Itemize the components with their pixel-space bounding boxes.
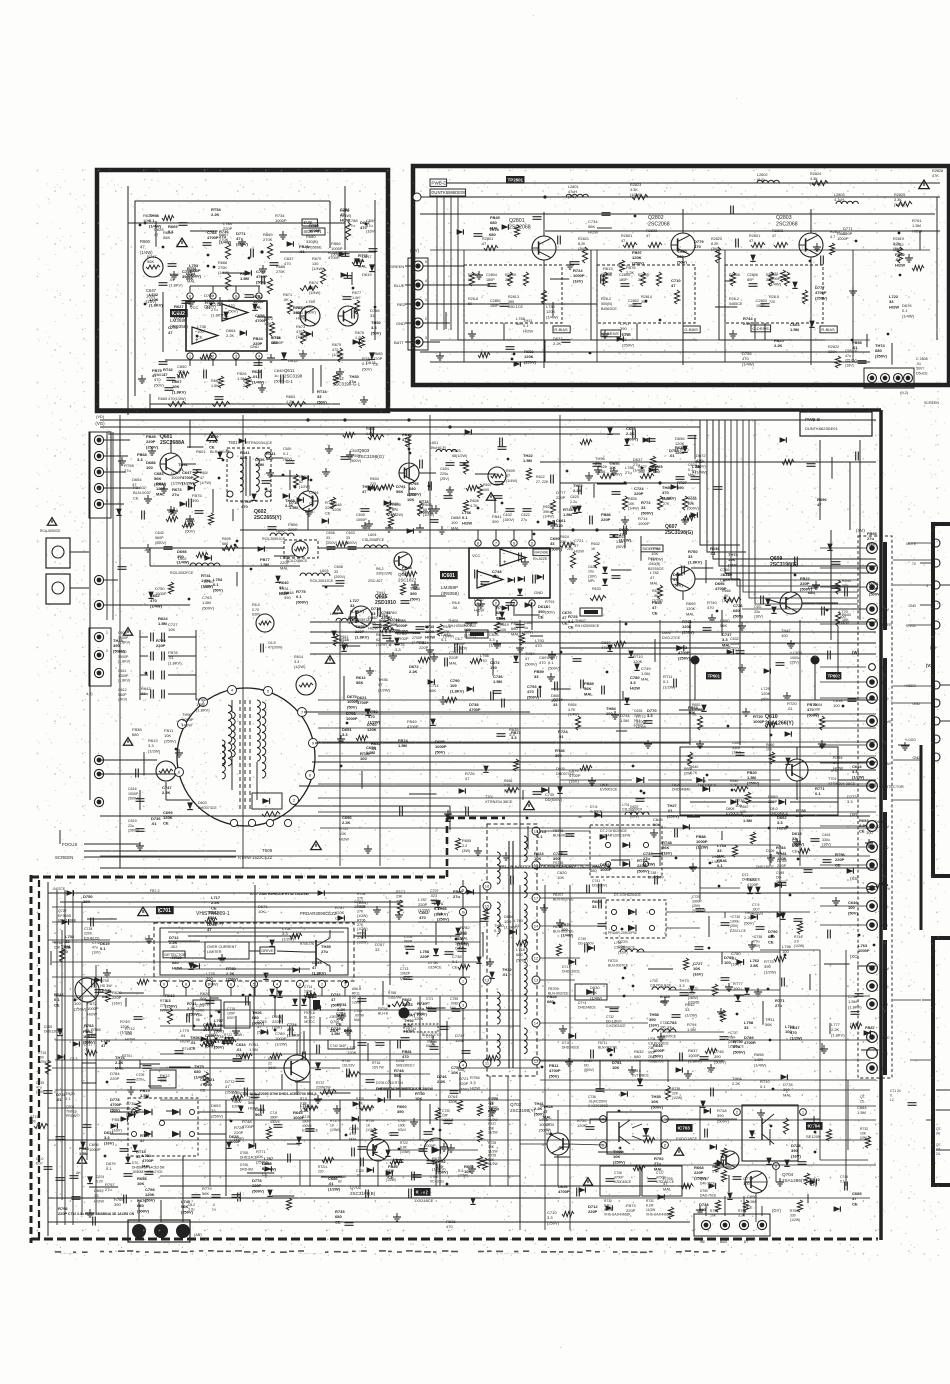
diode D603 — [187, 802, 193, 809]
connector V col pin4 — [932, 601, 940, 609]
diode D619 — [369, 264, 375, 271]
connector XV pin -22V — [867, 920, 878, 931]
transistor Q604 — [394, 552, 412, 570]
wire collector Q2803 — [810, 209, 812, 233]
pin IC701-6 — [227, 980, 234, 987]
wire right nest3 — [731, 420, 858, 580]
rect rect box2 — [606, 900, 666, 938]
wire stage drops — [544, 340, 546, 362]
transistor Q701b — [367, 1139, 389, 1161]
ic IC704 box — [742, 1105, 798, 1161]
resistor R667 — [225, 243, 230, 259]
wire strip bar3 — [883, 812, 887, 930]
pin 1 — [187, 353, 193, 359]
resistor R662 — [245, 376, 250, 388]
wire xray — [599, 1060, 601, 1086]
capacitor C744 — [844, 1182, 846, 1191]
capacitor C632a — [506, 508, 515, 510]
ground c604 — [449, 486, 451, 490]
capacitor C734 — [590, 1050, 592, 1059]
transformer T701 pin r2 — [532, 861, 540, 869]
ground KY — [439, 352, 441, 356]
label cluster C715 — [224, 1002, 250, 1028]
flyback pin3 — [199, 698, 208, 707]
warning triangle t608 — [311, 841, 321, 850]
pin ic601 b2 — [493, 600, 499, 606]
wire bridge — [110, 1111, 128, 1113]
label PWB-D — [430, 179, 447, 186]
connector t701 chain pins — [459, 886, 466, 893]
lamp degauss — [75, 978, 99, 1002]
pin ic703 2 — [600, 1142, 607, 1149]
resistor R712 — [222, 1039, 236, 1044]
warning triangle rca — [47, 518, 56, 526]
flyback pin4 — [228, 686, 237, 695]
parts filler l605 band — [444, 658, 446, 667]
wire q609 c — [790, 565, 792, 592]
coil L601 — [436, 449, 441, 452]
connector V2 pin1 — [932, 681, 940, 689]
resistor stage-d Q2802 — [674, 290, 679, 304]
resistor R608 — [463, 500, 468, 512]
capacitor C624 — [691, 476, 700, 478]
flyback pin1 — [178, 720, 187, 729]
connector XV pin +-22V — [867, 883, 878, 894]
flyback secondary winding — [257, 700, 260, 707]
resistor R2802 — [648, 242, 662, 247]
wire d808 row — [560, 779, 632, 781]
parts filler secondary — [757, 988, 759, 992]
wire tr v bundle — [463, 250, 465, 362]
resistor R732 — [865, 1136, 870, 1148]
connector GY box — [694, 1214, 770, 1236]
pin IC701-8 — [182, 980, 189, 987]
wire tr h mid — [420, 213, 935, 215]
wire right nest2 — [849, 462, 851, 530]
warning triangle AK — [77, 1156, 86, 1164]
resistor R739 — [665, 1086, 670, 1100]
label G-DRIVE 1 — [601, 330, 621, 337]
connector XV pin +15V — [867, 821, 878, 832]
thermistor TH607 — [580, 608, 602, 616]
op-amp IC602 body — [186, 301, 267, 351]
connector V2 pin5 — [932, 753, 940, 761]
warning triangle c726 — [583, 1178, 592, 1186]
PWB border top-left block — [97, 170, 388, 411]
capacitor C611 — [150, 671, 152, 680]
diode D618 — [369, 352, 375, 359]
ground tp — [647, 740, 649, 744]
wire strip feeds — [820, 547, 866, 549]
capacitor C717 — [88, 1034, 97, 1036]
pin IC701-3 — [296, 980, 303, 987]
diode d739 — [736, 959, 743, 965]
coil L606 — [270, 533, 276, 536]
box DRIVE — [260, 947, 275, 954]
connector V2 pin2 — [932, 699, 940, 707]
capacitor C740 — [584, 944, 586, 953]
capacitor C720 — [360, 1158, 362, 1167]
transformer T601 windings — [240, 458, 243, 465]
flyback T608 body — [177, 688, 315, 826]
capacitor C605 — [361, 508, 370, 510]
parts filler bottom left col — [85, 1050, 97, 1055]
wire bl v bundle — [56, 890, 58, 1225]
capacitor stage2 Q2803 — [761, 303, 770, 305]
capacitor C706 — [458, 948, 467, 950]
bridge diode 2 — [172, 1109, 180, 1115]
connector XV pin GND — [867, 901, 878, 912]
resistor R654b — [819, 716, 824, 730]
bridge3 diodes — [611, 909, 616, 914]
bridge diode 3 — [144, 1131, 152, 1137]
resistor R715 — [360, 1105, 374, 1110]
capacitor C705 — [406, 946, 415, 948]
parts filler protect row — [687, 816, 700, 818]
resistor R744 — [797, 922, 802, 934]
label bias Q2802 — [683, 326, 700, 333]
capacitor C725 — [586, 1126, 595, 1128]
capacitor C608 — [150, 633, 152, 642]
capacitor C640m — [516, 624, 525, 626]
rect rect box1 — [590, 825, 662, 877]
transformer T701 left winding — [497, 852, 500, 858]
wire emitter Q2801 — [543, 260, 545, 368]
resistor R606 — [417, 502, 422, 516]
wire t601-q602 — [271, 475, 298, 477]
resistor R750 — [797, 1200, 802, 1212]
capacitor C623 — [578, 486, 580, 495]
capacitor C618 — [416, 626, 425, 628]
capacitor C637 — [636, 798, 645, 800]
parts filler center n mid — [431, 505, 433, 509]
PWB border top-right block — [413, 166, 949, 385]
connector KY pin5 — [413, 337, 423, 347]
wire q603 — [408, 437, 410, 463]
resistor R2824 — [812, 180, 828, 185]
flyback diode box — [252, 793, 282, 809]
transistor Q609 — [780, 592, 802, 614]
transistor ic701 internal — [315, 940, 317, 966]
bridge dashed box — [128, 1098, 198, 1156]
op-amp IC602 upper — [222, 304, 248, 321]
wire h rails mid — [240, 529, 560, 531]
wire collector Q2801 — [543, 212, 545, 236]
coil L2802 — [757, 180, 763, 183]
wire right inner thick bar — [920, 745, 923, 930]
connector VG pin7 — [94, 600, 103, 609]
diode D7-5 — [568, 1033, 575, 1039]
parts filler tr boost — [898, 232, 901, 235]
wire center v boost — [339, 620, 341, 866]
connector VG pin5 — [94, 499, 103, 508]
label IC702 — [414, 1188, 431, 1196]
resistor R734 — [715, 1200, 720, 1212]
connector XV pin 1 — [867, 563, 878, 574]
connector XV pin 7V — [867, 860, 878, 871]
ground q612 — [339, 368, 341, 372]
pin 4 — [256, 353, 262, 359]
parts filler ic701 south2 — [440, 1026, 449, 1028]
connector XV pin TIMER — [867, 619, 878, 630]
resistor R631 — [570, 552, 575, 568]
resistor R675 — [337, 348, 342, 362]
transformer T701 pin l4 — [483, 1059, 491, 1067]
label TP2801 — [506, 176, 525, 184]
parts filler bottom mid2 — [378, 1097, 385, 1102]
coil L605 — [336, 618, 342, 621]
parts filler mid-left — [283, 493, 290, 498]
connector AC box — [128, 1220, 190, 1242]
wire q607 run — [695, 578, 740, 580]
connector XV pin +15V — [867, 963, 878, 974]
resistor R666 — [267, 278, 272, 294]
pin IC701-1 — [341, 980, 348, 987]
wire mid rails — [165, 359, 370, 361]
resistor R654a — [575, 716, 580, 730]
parts filler top-right inner — [715, 306, 737, 308]
transformer T701 pin r6 — [532, 976, 540, 984]
label IC703 — [676, 1124, 693, 1132]
connector tr out — [864, 368, 914, 388]
flyback pin6 — [175, 768, 184, 777]
pin IC701-5 — [250, 980, 257, 987]
resistor R2819 — [897, 247, 902, 263]
resistor R714 — [200, 1041, 214, 1046]
resistor stage-a Q2803 — [730, 272, 735, 286]
connector XV pin 50/60 — [867, 1032, 878, 1043]
transistor ic704 internal — [761, 1118, 763, 1140]
resistor R2821 — [582, 247, 587, 263]
transistor Q-chopper — [284, 1055, 310, 1081]
resistor stage-a Q2802 — [602, 272, 607, 286]
resistor R619 — [494, 622, 499, 634]
transformer T701 dashed box — [487, 824, 537, 1076]
resistor R645c — [437, 624, 442, 636]
pin ic703 1 — [600, 1116, 607, 1123]
resistor R627 — [640, 473, 654, 478]
resistor R625 — [550, 500, 555, 514]
parts filler tl boost — [257, 316, 272, 318]
pin ic704 3 — [773, 1163, 780, 1170]
resistor R719 — [371, 1128, 376, 1140]
transistor Q2802 — [671, 233, 695, 257]
capacitor C616 — [136, 798, 145, 800]
resistor stage-d Q2803 — [802, 290, 807, 304]
wire q702 links — [557, 1155, 559, 1186]
resistor R652 — [697, 716, 702, 730]
trimmer L-tune — [284, 540, 318, 558]
flyback bottom pins — [230, 819, 237, 826]
resistor R632 — [594, 552, 599, 568]
transistor Q702 — [547, 1133, 569, 1155]
resistor RTC3 — [397, 900, 402, 914]
connector XV pin ABL — [867, 740, 878, 751]
wire right partial stubs — [922, 999, 933, 1001]
capacitor C641 — [811, 838, 820, 840]
capacitor C707 — [432, 900, 441, 902]
resistor R666h — [725, 597, 741, 602]
ground ic601 pins — [496, 640, 498, 644]
transformer T701 pin r7 — [532, 1019, 540, 1027]
resistor R629 — [657, 496, 662, 510]
connector AC pin2 — [154, 1224, 168, 1238]
capacitor C649 — [258, 370, 260, 379]
PWB partial box far right upper — [933, 524, 950, 876]
resistor r72x zig — [477, 1104, 482, 1116]
wire chopper — [160, 1067, 284, 1069]
dashed stage box Q2801 — [464, 265, 562, 323]
resistor R630 — [682, 496, 687, 510]
ground c605 — [364, 522, 366, 526]
connector V col pin2 — [932, 559, 940, 567]
op-amp IC601 lower — [477, 571, 503, 588]
capacitor stage2 Q2801 — [500, 303, 509, 305]
parts filler ic601 region — [480, 600, 482, 604]
resistor R656h — [505, 787, 519, 792]
resistor R73x — [390, 1159, 402, 1164]
ground grid — [624, 516, 626, 520]
label foc line — [84, 850, 236, 852]
wire bottom h bundle — [55, 995, 870, 997]
pin ic601 b3 — [511, 600, 517, 606]
warning triangle mid1 — [486, 493, 495, 501]
connector KY pin4 — [413, 318, 423, 328]
connector V col pin3 — [932, 581, 940, 589]
wire left spine — [89, 432, 91, 800]
dashed stage box Q2802 — [597, 265, 695, 323]
capacitor C726 box — [600, 1166, 640, 1196]
label PWB-B — [800, 412, 872, 436]
wire br h rows — [540, 1079, 876, 1081]
ground c641 — [796, 838, 798, 842]
wire emitter Q2802 — [682, 257, 684, 365]
resistor R623 — [463, 460, 468, 474]
connector RCA jack 1 — [46, 538, 70, 568]
resistor R672 — [269, 322, 274, 336]
diode D708 — [248, 1143, 255, 1149]
wire q701 links — [389, 1149, 424, 1151]
connector RCA jack 2 — [46, 574, 70, 604]
capacitor C761 — [358, 998, 367, 1000]
resistor R604 — [368, 485, 384, 490]
capacitor C603 — [348, 546, 357, 548]
connector GY pin3 — [739, 1220, 748, 1229]
pin ic704 1 — [734, 1109, 741, 1116]
resistor R663 — [288, 401, 306, 406]
warning triangle — [177, 238, 187, 247]
wire ic pins — [190, 285, 260, 287]
wire sec rails2 — [636, 951, 780, 953]
parts filler center w boost — [310, 479, 313, 482]
wire gy feeds — [705, 1206, 707, 1216]
capacitor C736 — [596, 1088, 605, 1090]
resistor stage-a Q2801 — [469, 272, 474, 286]
capacitor C719b — [306, 1128, 315, 1130]
diode D7x — [67, 890, 74, 896]
parts filler bottom-right — [717, 1160, 724, 1165]
wire collector Q2802 — [682, 209, 684, 233]
resistor R737 — [320, 1089, 336, 1094]
transistor Q610 — [786, 759, 808, 781]
resistor stage-d Q2801 — [541, 290, 546, 304]
parts filler flyback east — [551, 651, 553, 655]
wire top rail 2 — [545, 230, 940, 232]
resistor stage-b Q2801 — [507, 272, 512, 286]
connector XV pin GND — [867, 981, 878, 992]
resistor R73x2 — [721, 1148, 726, 1158]
transistor Q612 — [338, 306, 358, 326]
wire protector — [690, 801, 726, 803]
transformer T701 pin r8 — [532, 1057, 540, 1065]
resistor stage-b Q2803 — [768, 272, 773, 286]
diode D615 — [281, 352, 287, 359]
resistor R640 — [734, 786, 748, 791]
pin ic703 4 — [662, 1142, 669, 1149]
transformer T701 pin r1 — [532, 827, 540, 835]
capacitor C647 — [159, 282, 168, 284]
wire stage rails Q2801 — [457, 250, 459, 340]
capacitor C737 — [720, 1036, 729, 1038]
capacitor C632b — [736, 650, 745, 652]
capacitor C741 — [598, 884, 600, 893]
resistor R673 — [300, 330, 305, 344]
resistor R660b — [769, 752, 774, 764]
resistor stage-c Q2802 — [656, 272, 661, 286]
wire bottom block dashed bottom border — [31, 1238, 878, 1241]
trimmer R609 — [488, 467, 506, 485]
ic IC701 inner box — [160, 928, 348, 975]
connector XV pin DRIVE — [867, 716, 878, 727]
warning triangle ic701 — [138, 907, 148, 916]
label bias Q2803 — [820, 326, 837, 333]
label M4249E — [533, 549, 550, 556]
pin 5 — [256, 293, 262, 299]
parts filler bottom right2 — [704, 1108, 711, 1113]
resistor R671 — [287, 300, 292, 314]
wire ic701 inner mesh — [168, 931, 344, 933]
wire bottom h bundle2 — [160, 1009, 520, 1011]
wire bottom block bottom inner line — [48, 1221, 690, 1223]
capacitor C643b — [760, 596, 762, 605]
wire stage rails Q2803 — [718, 250, 720, 340]
testpoint T mark — [399, 1008, 410, 1019]
resistor R609b — [222, 545, 238, 550]
resistor base Q2803 — [751, 242, 765, 247]
capacitor C732 — [610, 1008, 619, 1010]
parts filler center ne — [647, 438, 656, 440]
transformer T701 pin l3 — [483, 976, 491, 984]
wire flyback out rails — [315, 742, 690, 744]
connector VG pin1 — [94, 435, 103, 444]
wire top-left block inner loop — [135, 201, 330, 396]
resistor R657v — [745, 792, 750, 804]
transformer T601 pins — [227, 452, 233, 458]
diode D717 — [568, 959, 575, 965]
transistor Q750 — [721, 1151, 739, 1169]
resistor R668 — [225, 274, 230, 290]
capacitor C719 — [44, 1090, 53, 1092]
resistor RT11 — [167, 1008, 172, 1024]
junction a — [260, 250, 263, 253]
wire d606 run — [560, 647, 730, 649]
wire top bus lines — [100, 419, 876, 421]
wire reg rails — [700, 887, 740, 889]
wire ky links — [423, 265, 464, 267]
capacitor C738 — [756, 926, 765, 928]
parts filler ic601 south — [394, 638, 399, 645]
warning triangle r613 — [123, 738, 132, 746]
